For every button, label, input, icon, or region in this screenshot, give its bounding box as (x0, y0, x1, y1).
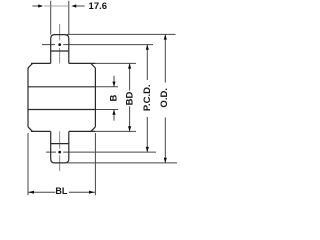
svg-text:BL: BL (55, 186, 67, 196)
svg-text:17.6: 17.6 (89, 1, 108, 12)
svg-text:B: B (109, 94, 120, 101)
svg-text:P.C.D.: P.C.D. (142, 84, 153, 111)
svg-text:O.D.: O.D. (159, 88, 170, 108)
svg-text:BD: BD (125, 92, 136, 106)
